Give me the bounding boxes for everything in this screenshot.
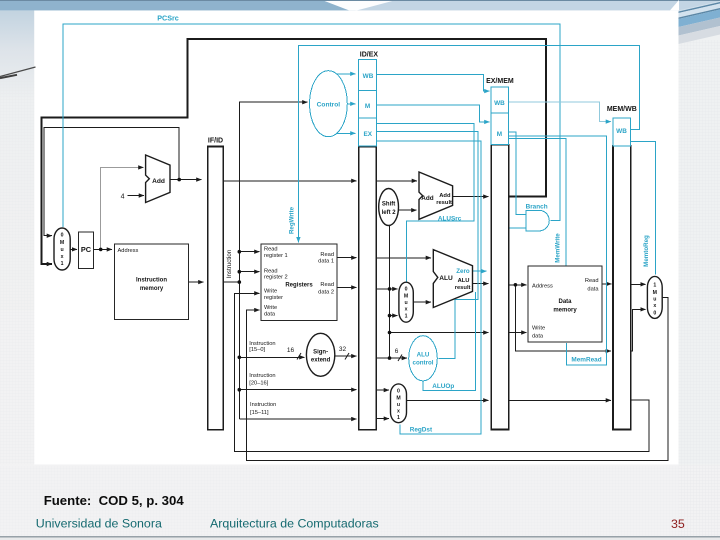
svg-text:[15–11]: [15–11] bbox=[250, 410, 269, 416]
svg-text:M: M bbox=[365, 103, 370, 110]
svg-text:result: result bbox=[436, 200, 452, 206]
svg-text:Instruction: Instruction bbox=[249, 341, 275, 347]
svg-text:Registers: Registers bbox=[285, 283, 313, 289]
svg-text:0: 0 bbox=[61, 233, 64, 239]
svg-text:left 2: left 2 bbox=[382, 210, 397, 216]
svg-text:Add: Add bbox=[439, 193, 451, 199]
svg-text:WB: WB bbox=[363, 73, 374, 80]
svg-text:u: u bbox=[61, 247, 64, 253]
svg-text:1: 1 bbox=[61, 261, 64, 267]
svg-text:Instruction: Instruction bbox=[136, 278, 167, 284]
svg-text:Universidad de Sonora: Universidad de Sonora bbox=[36, 516, 162, 530]
svg-text:Shift: Shift bbox=[382, 202, 395, 208]
svg-text:Sign-: Sign- bbox=[313, 350, 328, 356]
svg-text:WB: WB bbox=[494, 100, 505, 107]
svg-text:Instruction: Instruction bbox=[250, 402, 276, 408]
svg-text:ID/EX: ID/EX bbox=[360, 51, 379, 58]
svg-text:RegDst: RegDst bbox=[410, 426, 433, 433]
svg-text:Zero: Zero bbox=[456, 268, 470, 275]
svg-text:[20–16]: [20–16] bbox=[249, 381, 268, 387]
svg-text:ALU: ALU bbox=[439, 275, 453, 282]
svg-text:MemtoReg: MemtoReg bbox=[643, 235, 650, 267]
svg-text:Read: Read bbox=[264, 268, 278, 274]
svg-text:data: data bbox=[264, 311, 276, 317]
svg-text:PC: PC bbox=[81, 245, 92, 254]
svg-text:Fuente: COD 5, p. 304: Fuente: COD 5, p. 304 bbox=[44, 493, 185, 508]
svg-text:32: 32 bbox=[339, 346, 347, 353]
svg-text:ALU: ALU bbox=[458, 278, 470, 284]
svg-text:IF/ID: IF/ID bbox=[208, 138, 223, 145]
svg-text:x: x bbox=[397, 408, 400, 414]
svg-text:RegWrite: RegWrite bbox=[289, 206, 296, 234]
svg-text:Control: Control bbox=[317, 101, 341, 108]
svg-text:Read: Read bbox=[264, 247, 278, 253]
svg-text:register 1: register 1 bbox=[264, 253, 288, 259]
svg-text:M: M bbox=[404, 293, 408, 299]
svg-text:data: data bbox=[587, 287, 599, 293]
svg-text:[15–0]: [15–0] bbox=[249, 347, 265, 353]
svg-text:Write: Write bbox=[264, 289, 277, 295]
svg-text:M: M bbox=[396, 395, 400, 401]
svg-text:1: 1 bbox=[653, 283, 656, 289]
svg-text:0: 0 bbox=[653, 311, 656, 317]
svg-text:1: 1 bbox=[397, 415, 400, 421]
svg-text:4: 4 bbox=[121, 193, 125, 200]
svg-text:register 2: register 2 bbox=[264, 274, 288, 280]
svg-text:EX: EX bbox=[364, 131, 373, 138]
svg-text:register: register bbox=[264, 295, 283, 301]
svg-text:Read: Read bbox=[320, 282, 334, 288]
svg-text:Add: Add bbox=[152, 178, 165, 185]
svg-text:x: x bbox=[405, 307, 408, 313]
svg-text:ALUOp: ALUOp bbox=[432, 383, 454, 390]
svg-text:M: M bbox=[497, 131, 502, 138]
svg-text:x: x bbox=[61, 254, 64, 260]
svg-text:u: u bbox=[405, 300, 408, 306]
svg-text:Arquitectura de Computadoras: Arquitectura de Computadoras bbox=[210, 516, 379, 530]
svg-text:memory: memory bbox=[553, 308, 577, 314]
svg-text:16: 16 bbox=[287, 347, 295, 354]
svg-text:M: M bbox=[653, 290, 657, 296]
svg-text:Write: Write bbox=[532, 325, 545, 331]
svg-text:ALUSrc: ALUSrc bbox=[438, 215, 462, 222]
svg-text:x: x bbox=[653, 303, 656, 309]
svg-text:data 2: data 2 bbox=[318, 290, 334, 296]
svg-text:MemRead: MemRead bbox=[571, 357, 601, 364]
svg-text:WB: WB bbox=[616, 128, 627, 135]
svg-text:1: 1 bbox=[405, 313, 408, 319]
svg-text:0: 0 bbox=[397, 389, 400, 395]
svg-text:Add: Add bbox=[421, 195, 434, 202]
svg-text:data 1: data 1 bbox=[318, 259, 334, 265]
svg-text:memory: memory bbox=[140, 286, 164, 292]
svg-text:MemWrite: MemWrite bbox=[554, 233, 561, 263]
svg-text:35: 35 bbox=[671, 517, 685, 531]
svg-text:Read: Read bbox=[585, 278, 599, 284]
svg-text:u: u bbox=[653, 297, 656, 303]
svg-text:MEM/WB: MEM/WB bbox=[607, 106, 637, 113]
svg-text:data: data bbox=[532, 333, 544, 339]
svg-text:Read: Read bbox=[320, 252, 334, 258]
svg-text:0: 0 bbox=[405, 287, 408, 293]
svg-text:M: M bbox=[60, 240, 64, 246]
svg-text:Address: Address bbox=[532, 283, 553, 289]
svg-text:Data: Data bbox=[558, 299, 572, 305]
svg-text:6: 6 bbox=[395, 348, 399, 355]
svg-text:u: u bbox=[397, 402, 400, 408]
svg-text:extend: extend bbox=[311, 358, 331, 364]
svg-text:ALU: ALU bbox=[417, 352, 430, 359]
svg-text:PCSrc: PCSrc bbox=[157, 13, 179, 22]
svg-text:control: control bbox=[413, 360, 434, 367]
svg-text:Write: Write bbox=[264, 305, 277, 311]
svg-text:EX/MEM: EX/MEM bbox=[486, 78, 514, 85]
svg-text:Instruction: Instruction bbox=[249, 373, 275, 379]
svg-text:Branch: Branch bbox=[526, 203, 548, 210]
svg-text:Address: Address bbox=[118, 248, 139, 254]
svg-text:Instruction: Instruction bbox=[226, 249, 233, 278]
svg-text:result: result bbox=[455, 285, 471, 291]
